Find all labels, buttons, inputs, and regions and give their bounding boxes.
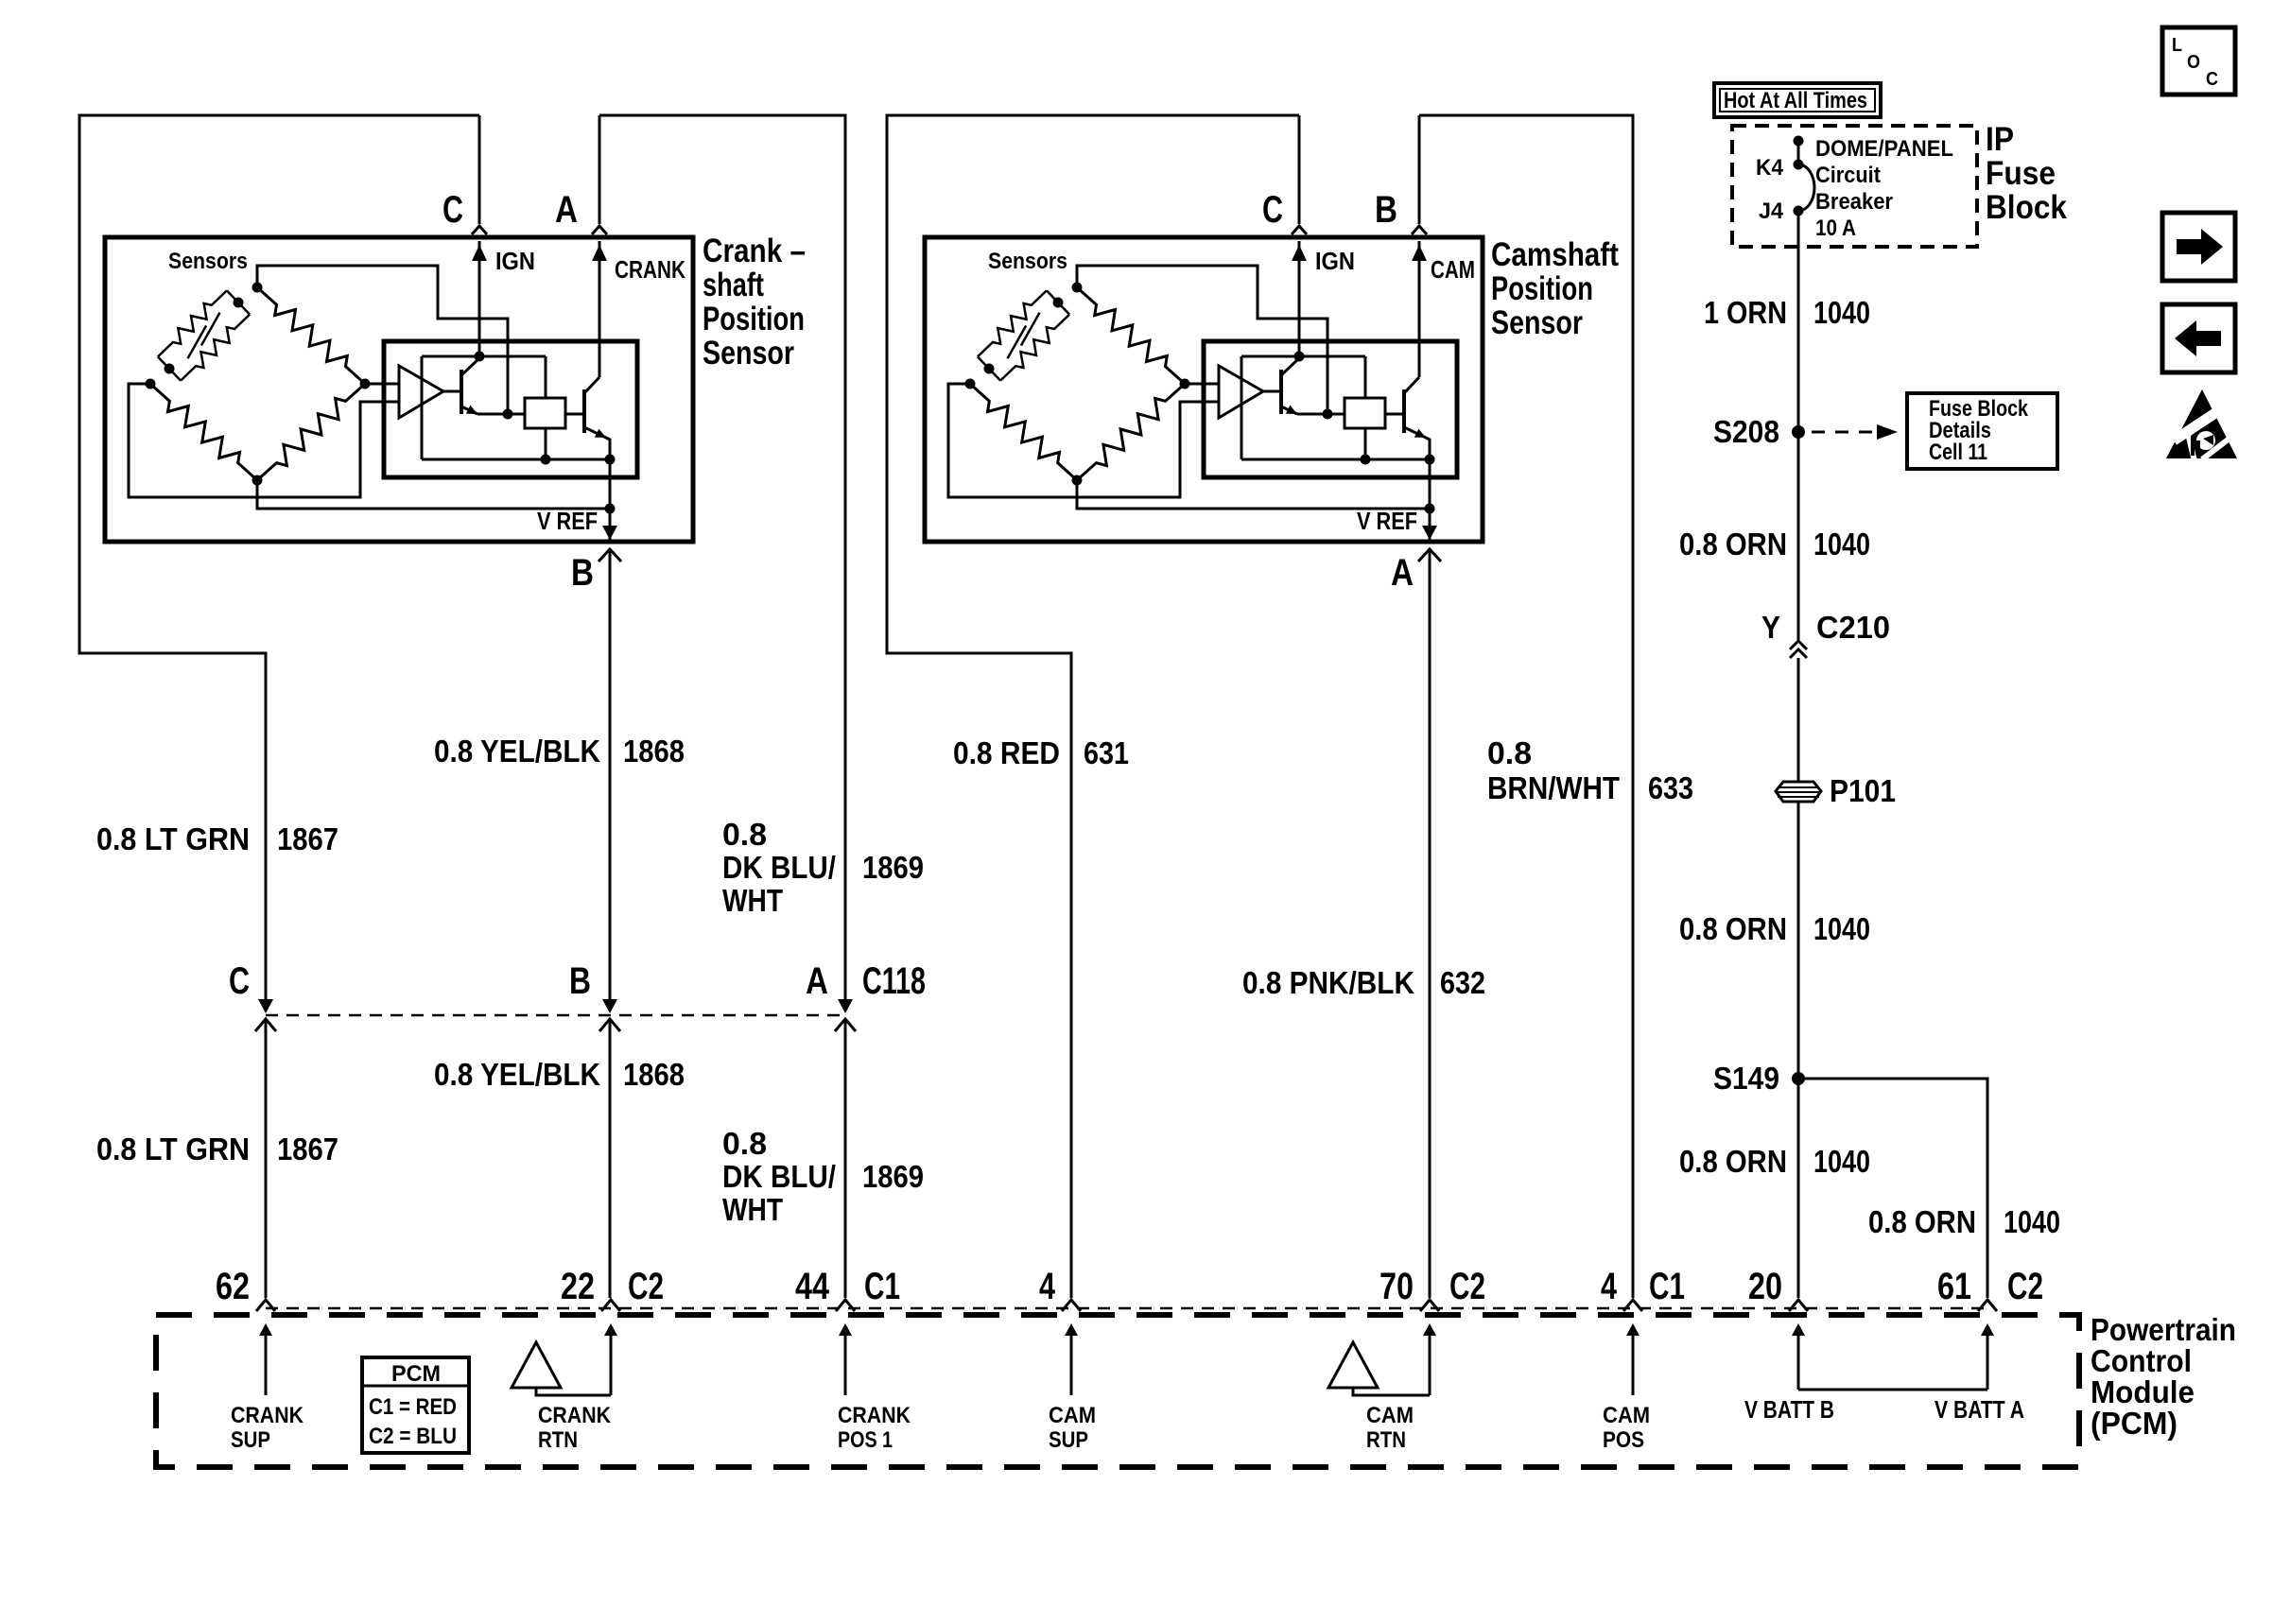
svg-text:V REF: V REF [537,507,598,535]
svg-text:0.8 LT GRN: 0.8 LT GRN [96,821,250,856]
svg-text:1040: 1040 [2004,1204,2060,1239]
wire 0.8 ORN below C210 [1797,658,1800,781]
svg-text:Sensor: Sensor [703,335,794,371]
svg-text:0.8 ORN: 0.8 ORN [1679,911,1787,946]
crankshaft position sensor coupling box [525,398,565,428]
wire branch S149 to pin 61 [1798,1079,1987,1298]
svg-text:10 A: 10 A [1815,216,1856,241]
svg-text:631: 631 [1084,735,1129,770]
camshaft position sensor sensor outer box [925,237,1483,542]
PCM input arrow at x=281 [259,1323,272,1336]
camshaft position sensor CAM wire [1418,241,1421,377]
wire CRANK output A to C118 cavity A [599,115,845,1008]
wire 632 CAM RTN from cam terminal A to PCM pin 70 [1429,550,1431,1298]
wire 1 ORN 1040 [1797,211,1800,640]
PCM input arrow at x=1727 [1626,1323,1640,1336]
svg-text:Position: Position [703,301,805,337]
svg-text:Camshaft: Camshaft [1491,236,1619,273]
svg-text:0.8 LT GRN: 0.8 LT GRN [96,1132,250,1166]
svg-text:SUP: SUP [1049,1427,1088,1453]
camshaft position sensor bridge wire right vertex to amp [1185,383,1219,386]
svg-text:0.8 ORN: 0.8 ORN [1679,527,1787,561]
svg-text:1867: 1867 [277,821,338,856]
svg-text:SUP: SUP [231,1427,270,1453]
svg-text:70: 70 [1379,1266,1414,1307]
svg-text:Sensor: Sensor [1491,304,1583,341]
svg-text:IP: IP [1986,121,2014,158]
PCM input arrow at x=894 [839,1323,852,1336]
PCM pin 61 cavity [1978,1300,1997,1311]
forward arrow icon [2162,213,2235,281]
PCM CRANK RTN internal triangle [604,1323,617,1336]
crankshaft position sensor transistor Q1 [460,370,463,414]
svg-text:20: 20 [1748,1266,1782,1307]
svg-text:C2: C2 [628,1266,664,1307]
svg-text:BRN/WHT: BRN/WHT [1487,770,1620,805]
crankshaft position sensor bridge wire from top vertex [257,266,508,414]
svg-text:22: 22 [561,1266,595,1307]
crankshaft position sensor IGN wire [478,241,481,356]
svg-text:RTN: RTN [1366,1427,1406,1453]
svg-text:44: 44 [795,1266,830,1307]
crankshaft position sensor terminal C chevron [478,115,481,224]
svg-text:IGN: IGN [495,247,535,275]
svg-text:0.8 YEL/BLK: 0.8 YEL/BLK [434,734,600,769]
svg-text:Fuse: Fuse [1986,155,2056,192]
svg-text:CAM: CAM [1603,1403,1650,1428]
wire 1869 lower segment [844,1021,847,1298]
svg-text:62: 62 [216,1266,250,1307]
back arrow icon [2162,304,2235,372]
svg-text:CRANK: CRANK [231,1403,304,1428]
camshaft position sensor V REF output arrow [1429,509,1431,540]
svg-text:CRANK: CRANK [538,1403,612,1428]
connector C118 cavity C [258,999,273,1013]
PCM input arrow at x=1133 [1065,1323,1078,1336]
svg-text:Circuit: Circuit [1815,163,1881,188]
svg-text:B: B [569,960,591,1002]
crankshaft position sensor sensor outer box [105,237,693,542]
camshaft position sensor amplifier triangle [1219,366,1263,418]
svg-text:0.8: 0.8 [722,1126,767,1161]
PCM pin 20 cavity [1789,1300,1808,1311]
svg-text:0.8 PNK/BLK: 0.8 PNK/BLK [1242,965,1414,1000]
svg-text:RTN: RTN [538,1427,578,1453]
svg-text:CAM: CAM [1049,1403,1096,1428]
camshaft position sensor bias network rails [1241,355,1365,358]
svg-text:K4: K4 [1756,155,1784,181]
svg-text:0.8 ORN: 0.8 ORN [1868,1204,1976,1239]
svg-text:C2: C2 [2007,1266,2043,1307]
svg-text:C: C [2206,69,2218,90]
svg-text:1867: 1867 [277,1132,338,1166]
camshaft position sensor terminal B chevron [1418,115,1421,224]
svg-text:Sensors: Sensors [168,249,248,274]
svg-text:C: C [1262,189,1283,231]
camshaft position sensor terminal A chevron [1418,549,1441,561]
svg-text:C1: C1 [864,1266,900,1307]
svg-text:CAM: CAM [1366,1403,1414,1428]
grommet P101 [1776,782,1821,802]
svg-text:S208: S208 [1713,414,1779,449]
svg-text:DK BLU/: DK BLU/ [722,850,836,885]
svg-text:C2 = BLU: C2 = BLU [369,1424,457,1449]
PCM pin 4 cavity [1062,1300,1081,1311]
camshaft position sensor IGN wire [1298,241,1301,356]
camshaft position sensor bridge resistor bottom-right [1077,384,1185,480]
svg-text:Powertrain: Powertrain [2091,1312,2236,1347]
connector C118 cavity B [602,999,617,1013]
ESD sensitive device icon [2166,389,2237,458]
camshaft position sensor bridge wire from top vertex [1077,266,1327,414]
svg-text:S149: S149 [1713,1061,1779,1096]
svg-text:CRANK: CRANK [615,255,685,284]
PCM connector face dashed line [266,1307,1987,1310]
Hot At All Times box [1714,83,1881,117]
crankshaft position sensor bridge wire left vertex loop [129,384,399,497]
svg-text:0.8 ORN: 0.8 ORN [1679,1144,1787,1179]
svg-text:4: 4 [1039,1266,1056,1307]
camshaft position sensor IC inner box [1204,341,1457,477]
camshaft position sensor bridge wire left vertex loop [948,384,1219,497]
PCM pin 70 cavity [1420,1300,1439,1311]
crankshaft position sensor terminal B chevron [599,549,621,561]
svg-text:Block: Block [1986,189,2067,226]
crankshaft position sensor IC inner box [384,341,637,477]
IP Fuse Block dashed box [1732,126,1977,247]
crankshaft position sensor transistor Q2 [582,389,586,433]
PCM V BATT B / V BATT A internal bus [1792,1323,1805,1336]
svg-text:Sensors: Sensors [988,249,1067,274]
svg-text:1040: 1040 [1813,527,1870,561]
camshaft position sensor V REF rail [1077,480,1430,509]
wire CRANK SUP loop from terminal C to PCM pin 62 [79,115,479,1008]
svg-text:1040: 1040 [1813,911,1870,946]
svg-text:A: A [1391,552,1414,594]
svg-text:Hot At All Times: Hot At All Times [1724,88,1867,113]
PCM pin 62 cavity [256,1300,275,1311]
crankshaft position sensor bridge resistor bottom-left [150,384,257,480]
wire 1868 lower segment [609,1021,612,1298]
circuit breaker DOME/PANEL 10A [1794,136,1804,147]
svg-text:1040: 1040 [1813,295,1870,330]
svg-text:C: C [229,960,250,1002]
svg-text:0.8 YEL/BLK: 0.8 YEL/BLK [434,1057,600,1092]
svg-text:1869: 1869 [862,850,924,885]
wire 1867 lower segment [265,1021,268,1298]
svg-text:Breaker: Breaker [1815,189,1893,215]
svg-text:DK BLU/: DK BLU/ [722,1159,836,1194]
crankshaft position sensor amplifier triangle [399,366,443,418]
crankshaft position sensor bridge wire right vertex to amp [365,383,399,386]
svg-text:V REF: V REF [1357,507,1417,535]
splice S149 [1792,1072,1805,1085]
camshaft position sensor transistor Q2 [1402,389,1406,433]
camshaft position sensor bridge variable resistor pair [1047,290,1058,302]
PCM legend box [362,1357,469,1453]
svg-text:B: B [571,552,594,594]
svg-text:Position: Position [1491,270,1593,307]
wire 1868 from terminal B to C118 cavity B [609,550,612,1008]
svg-text:(PCM): (PCM) [2091,1406,2178,1441]
svg-text:0.8: 0.8 [1487,735,1532,770]
svg-text:C118: C118 [862,960,926,1002]
svg-text:1040: 1040 [1813,1144,1870,1179]
svg-text:B: B [1375,189,1397,231]
Powertrain Control Module dashed box [156,1315,2079,1467]
dashed reference arrow to fuse block details [1812,431,1877,434]
svg-text:Module: Module [2091,1374,2195,1409]
svg-text:PCM: PCM [391,1361,441,1387]
svg-text:WHT: WHT [722,883,783,918]
svg-text:Y: Y [1761,610,1780,645]
svg-text:Cell 11: Cell 11 [1929,440,1987,465]
crankshaft position sensor V REF rail [257,480,610,509]
crankshaft position sensor bridge variable resistor pair [227,290,238,302]
camshaft position sensor bridge resistor top-right [1077,287,1185,384]
wire CAM output B to PCM pin 4 C1 [1419,115,1633,1298]
PCM pin 44 cavity [836,1300,855,1311]
camshaft position sensor coupling box [1345,398,1385,428]
svg-text:C1 = RED: C1 = RED [369,1394,457,1420]
camshaft position sensor terminal C chevron [1298,115,1301,224]
svg-text:61: 61 [1937,1266,1971,1307]
svg-text:C210: C210 [1816,610,1890,645]
crankshaft position sensor bridge resistor bottom-right [257,384,365,480]
svg-text:WHT: WHT [722,1192,783,1227]
svg-text:IGN: IGN [1315,247,1355,275]
svg-text:C2: C2 [1449,1266,1485,1307]
wire CAM SUP loop from cam terminal C to PCM pin 4 [887,115,1299,1298]
svg-text:L: L [2172,35,2182,56]
svg-text:632: 632 [1440,965,1485,1000]
svg-text:J4: J4 [1759,199,1784,224]
svg-text:1868: 1868 [623,734,685,769]
PCM CAM RTN internal triangle [1423,1323,1436,1336]
svg-text:POS 1: POS 1 [838,1427,893,1453]
svg-text:0.8: 0.8 [722,817,767,852]
svg-text:Crank –: Crank – [703,233,806,269]
svg-text:C: C [442,189,463,231]
crankshaft position sensor CRANK wire [599,241,601,377]
LOC reference icon [2162,27,2235,95]
svg-text:1869: 1869 [862,1159,924,1194]
svg-text:A: A [555,189,578,231]
svg-text:A: A [806,960,828,1002]
svg-text:DOME/PANEL: DOME/PANEL [1815,136,1953,162]
PCM pin 4 cavity [1623,1300,1642,1311]
crankshaft position sensor V REF output arrow [609,509,612,540]
splice S208 [1792,425,1805,439]
wire 0.8 ORN 1040 second [1797,803,1800,1298]
svg-text:V BATT A: V BATT A [1935,1395,2024,1424]
svg-text:1868: 1868 [623,1057,685,1092]
crankshaft position sensor terminal A chevron [599,115,601,224]
svg-text:0.8 RED: 0.8 RED [953,735,1060,770]
svg-text:4: 4 [1601,1266,1618,1307]
crankshaft position sensor bridge resistor top-right [257,287,365,384]
svg-text:O: O [2187,52,2200,73]
PCM pin 22 cavity [601,1300,620,1311]
Fuse Block Details Cell 11 box [1907,393,2057,469]
camshaft position sensor bridge resistor bottom-left [970,384,1077,480]
svg-text:C1: C1 [1649,1266,1685,1307]
crankshaft position sensor bias network rails [422,355,546,358]
svg-text:Control: Control [2091,1343,2192,1378]
svg-text:633: 633 [1648,770,1693,805]
svg-text:CRANK: CRANK [838,1403,911,1428]
crankshaft position sensor bridge junction dots [252,283,263,293]
svg-text:shaft: shaft [703,267,764,303]
svg-text:P101: P101 [1830,773,1896,808]
connector C118 cavity A [838,999,853,1013]
connector C118 dashed line [266,1014,845,1017]
svg-text:POS: POS [1603,1427,1644,1453]
camshaft position sensor transistor Q1 [1279,370,1283,414]
svg-text:1 ORN: 1 ORN [1704,295,1787,330]
svg-text:CAM: CAM [1431,255,1475,284]
svg-text:V BATT B: V BATT B [1744,1395,1834,1424]
camshaft position sensor bridge junction dots [1072,283,1083,293]
